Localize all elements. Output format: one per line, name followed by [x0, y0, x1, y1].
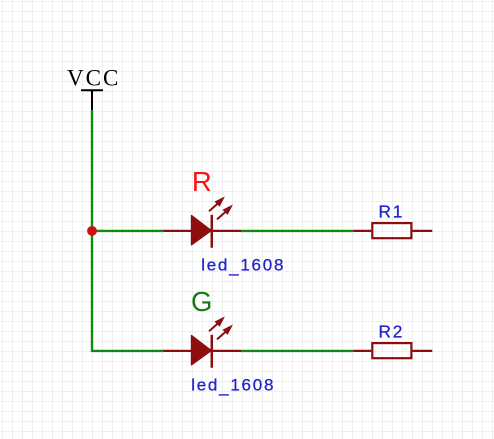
- pin 1 wire: [164, 350, 192, 352]
- svg-text:G: G: [191, 286, 212, 317]
- wire: VCC vertical down to bottom branch corner, then right: [92, 110, 164, 351]
- pin 2 wire: [212, 350, 241, 352]
- wire: junction to LED1 left: [92, 230, 164, 232]
- body rect: [372, 343, 411, 358]
- emission arrow 1: [209, 323, 218, 331]
- resistor R1: [353, 223, 432, 238]
- svg-text:led_1608: led_1608: [201, 255, 285, 276]
- cathode bar: [211, 215, 214, 248]
- triangle anode: [192, 336, 212, 365]
- pin wires: [353, 350, 371, 352]
- emission arrow 2: [217, 211, 226, 219]
- svg-text:R: R: [192, 166, 212, 197]
- svg-text:R1: R1: [379, 201, 405, 221]
- triangle anode: [192, 216, 212, 245]
- junction node: [87, 226, 97, 236]
- resistor R2: [353, 343, 432, 358]
- svg-text:led_1608: led_1608: [191, 375, 275, 396]
- wire: LED2 right to R2 left: [241, 350, 353, 352]
- body rect: [372, 223, 411, 238]
- pin wires: [353, 230, 371, 232]
- wire: LED1 right to R1 left: [241, 230, 353, 232]
- emission arrow 2: [217, 331, 226, 339]
- LED D2 (green): [164, 316, 242, 367]
- LED D1 (red): [164, 196, 242, 247]
- power symbol VCC: [81, 90, 103, 110]
- pin 1 wire: [164, 230, 192, 232]
- pin 2 wire: [212, 230, 241, 232]
- svg-text:VCC: VCC: [67, 66, 120, 91]
- svg-text:R2: R2: [379, 321, 405, 341]
- emission arrow 1: [209, 203, 218, 211]
- cathode bar: [211, 335, 214, 368]
